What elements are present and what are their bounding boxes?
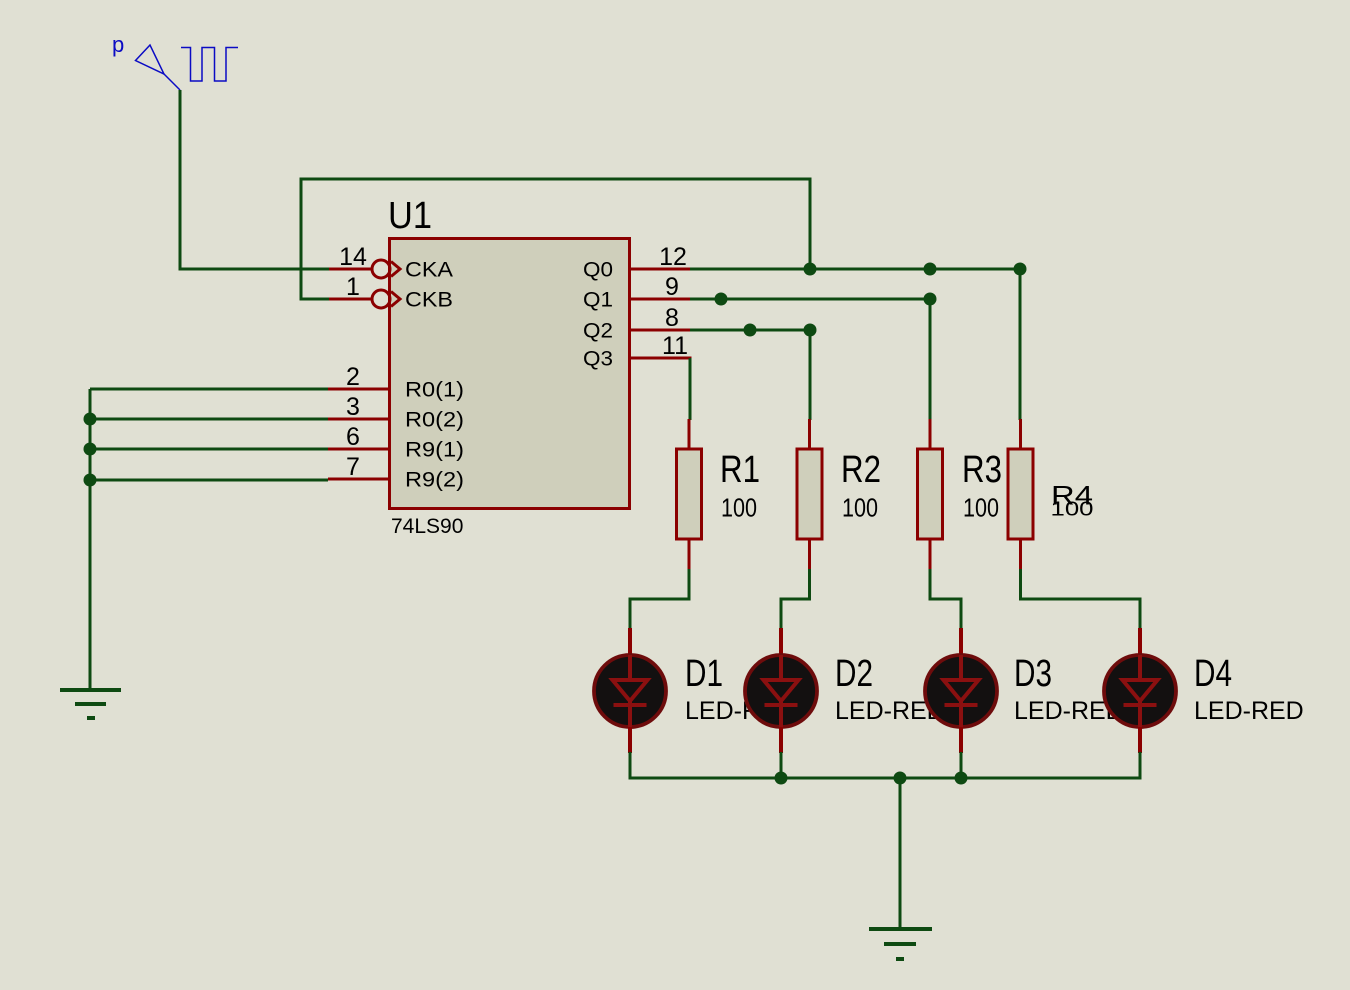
- svg-text:Q3: Q3: [583, 348, 613, 371]
- svg-text:Q2: Q2: [583, 320, 613, 343]
- junction Q0/feedback at x810: [804, 263, 817, 276]
- svg-text:R2: R2: [841, 449, 881, 491]
- svg-text:Q0: Q0: [583, 259, 613, 282]
- svg-text:CKA: CKA: [405, 259, 453, 282]
- pin 8 Q2 stub: [629, 329, 690, 332]
- junction reset bus at R9(2): [84, 474, 97, 487]
- svg-text:7: 7: [346, 453, 360, 481]
- LED D2: [745, 628, 817, 753]
- junction Q0 segment joint at x930: [924, 263, 937, 276]
- svg-text:74LS90: 74LS90: [391, 515, 463, 538]
- svg-text:14: 14: [339, 243, 367, 271]
- IC U1 body (74LS90): [390, 239, 630, 509]
- wire net Q2: pin 8 across to R2 drop: [690, 329, 810, 332]
- junction reset bus at R9(1): [84, 443, 97, 456]
- junction Q2 corner to R2: [804, 324, 817, 337]
- junction rail at ground tap: [894, 772, 907, 785]
- LED D3: [925, 628, 997, 753]
- svg-text:R9(1): R9(1): [405, 439, 464, 462]
- svg-text:12: 12: [659, 243, 687, 271]
- junction rail at D2: [775, 772, 788, 785]
- svg-text:2: 2: [346, 363, 360, 391]
- wire Q0 feedback to CKB: up from pin 1, across top, down to Q0 net: [301, 179, 810, 299]
- svg-text:D2: D2: [835, 653, 873, 695]
- junction reset bus at R0(2): [84, 413, 97, 426]
- wire rail down to ground: [899, 778, 902, 929]
- resistor R3: [918, 419, 943, 570]
- resistor R2: [797, 419, 822, 570]
- pin 2 R0(1) stub: [328, 388, 389, 391]
- svg-text:100: 100: [963, 493, 999, 523]
- resistor R1: [677, 419, 702, 570]
- LED D1: [594, 628, 666, 753]
- ground symbol bottom: [869, 929, 932, 959]
- svg-text:6: 6: [346, 423, 360, 451]
- wire Q0 down to R4: [1019, 269, 1022, 420]
- wire R4 to D4 jog: [1021, 569, 1141, 629]
- junction Q1 segment joint at x721: [715, 293, 728, 306]
- svg-text:p: p: [112, 32, 124, 57]
- svg-text:CKB: CKB: [405, 289, 453, 312]
- pin 3 R0(2) stub: [328, 418, 389, 421]
- svg-text:1: 1: [346, 273, 360, 301]
- wire Q1 down to R3: [929, 299, 932, 420]
- svg-text:3: 3: [346, 393, 360, 421]
- svg-text:D1: D1: [685, 653, 723, 695]
- wire R2 to D2 jog: [781, 569, 810, 629]
- pin 6 R9(1) stub: [328, 448, 389, 451]
- svg-text:D3: D3: [1014, 653, 1052, 695]
- junction rail at D3: [955, 772, 968, 785]
- svg-text:R3: R3: [962, 449, 1002, 491]
- junction Q2 segment joint at x750: [744, 324, 757, 337]
- wire clock output down and to CKA: [180, 90, 329, 269]
- svg-text:R9(2): R9(2): [405, 469, 464, 492]
- ground symbol left: [60, 690, 121, 718]
- pin 14 CKA stub with clock bubble: [329, 260, 400, 278]
- svg-text:Q1: Q1: [583, 289, 613, 312]
- pin 12 Q0 stub: [629, 268, 690, 271]
- svg-text:LED-RED: LED-RED: [1194, 697, 1304, 725]
- wire R3 to D3 jog: [930, 569, 961, 629]
- svg-text:R1: R1: [720, 449, 760, 491]
- svg-text:8: 8: [665, 304, 679, 332]
- pin 9 Q1 stub: [629, 298, 690, 301]
- LED D4: [1104, 628, 1176, 753]
- wire cathode rail D1..D4: [630, 752, 1140, 778]
- wire reset pins bus to ground: horizontals from pins 2,3,6,7: [90, 389, 328, 688]
- svg-text:100: 100: [721, 493, 757, 523]
- junction Q1 corner to R3: [924, 293, 937, 306]
- resistor R4: [1008, 419, 1033, 570]
- svg-text:U1: U1: [388, 195, 432, 237]
- svg-text:9: 9: [665, 273, 679, 301]
- wire net Q1: pin 9 across to R3 drop: [690, 298, 930, 301]
- pin 11 Q3 stub: [629, 358, 690, 366]
- pin 1 CKB stub with clock bubble: [329, 290, 400, 308]
- wire R1 to D1 jog: [630, 569, 689, 629]
- wire Q2 down to R2: [809, 330, 812, 420]
- pin 7 R9(2) stub: [328, 478, 389, 481]
- svg-text:R4: R4: [1051, 481, 1093, 511]
- svg-text:11: 11: [662, 332, 688, 360]
- junction Q0 corner to R4: [1014, 263, 1027, 276]
- svg-text:100: 100: [842, 493, 878, 523]
- svg-text:R0(2): R0(2): [405, 409, 464, 432]
- wire net Q3: pin 11 down to R1: [689, 358, 692, 420]
- clock source P (pulse generator probe): [136, 45, 239, 90]
- wire net Q0: pin 12 across to R4 drop: [690, 268, 1020, 271]
- svg-text:R0(1): R0(1): [405, 379, 464, 402]
- svg-text:D4: D4: [1194, 653, 1232, 695]
